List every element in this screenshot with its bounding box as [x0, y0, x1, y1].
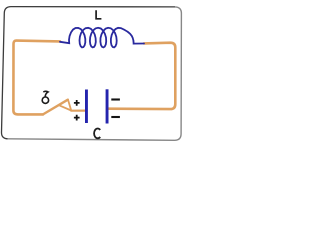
minus sign top (right plate) [111, 98, 120, 100]
inductor L coil [60, 28, 144, 48]
minus sign bottom (right plate) [111, 116, 120, 118]
plus sign top (left plate) [74, 100, 80, 106]
plus sign bottom (left plate) [74, 115, 80, 121]
wire capacitor to right side loop [109, 43, 176, 109]
switch blade δ [43, 100, 68, 115]
capacitor C right plate [106, 89, 109, 123]
capacitor C left plate [85, 90, 88, 124]
wire switch to capacitor [71, 109, 85, 111]
label L [96, 10, 101, 19]
switch arrowhead [60, 100, 71, 111]
label δ [44, 91, 48, 97]
wire top-left loop (left side + top-left segment) [13, 41, 60, 115]
label C [94, 128, 100, 138]
border frame [1, 7, 175, 139]
